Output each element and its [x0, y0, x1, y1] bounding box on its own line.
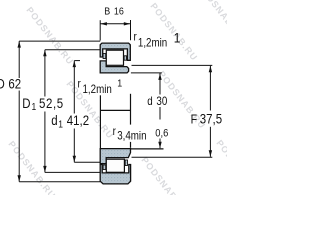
inner ring upper section — [100, 61, 128, 73]
svg-text:41,2: 41,2 — [67, 113, 89, 128]
D dimension — [18, 41, 20, 78]
svg-text:1: 1 — [32, 102, 37, 113]
svg-text:1: 1 — [174, 29, 181, 45]
d1 dimension — [73, 61, 75, 114]
svg-text:F: F — [191, 113, 197, 127]
cage bar lower right — [125, 160, 127, 166]
svg-text:16: 16 — [114, 6, 124, 18]
cage bar upper left — [103, 54, 106, 59]
svg-text:52,5: 52,5 — [39, 96, 64, 111]
svg-text:1,2min: 1,2min — [138, 37, 167, 50]
side face line left between sections — [99, 95, 101, 148]
svg-text:30: 30 — [156, 95, 167, 108]
svg-text:37,5: 37,5 — [200, 112, 222, 127]
outer ring lower section — [100, 165, 130, 184]
svg-text:62: 62 — [8, 77, 21, 92]
svg-text:d: d — [147, 95, 152, 108]
svg-text:d: d — [51, 113, 57, 128]
inner ring lower section — [100, 149, 130, 164]
svg-text:r: r — [134, 31, 138, 44]
axis line — [100, 109, 130, 111]
F dimension — [209, 66, 211, 111]
svg-text:r: r — [78, 78, 82, 91]
outer ring upper section — [100, 43, 130, 60]
watermark PODSNAB.RU tiles — [6, 0, 265, 217]
svg-text:D: D — [0, 77, 5, 92]
cage bar upper right — [124, 56, 126, 60]
roller upper section — [106, 50, 123, 65]
B dimension — [99, 20, 101, 40]
D1 dimension — [44, 50, 46, 97]
side face line right between sections — [130, 94, 132, 125]
d dimension — [159, 73, 161, 95]
svg-text:D: D — [22, 96, 30, 111]
svg-text:B: B — [104, 6, 110, 18]
cage bar lower left — [103, 165, 106, 170]
svg-text:1,2min: 1,2min — [83, 84, 112, 97]
svg-text:1: 1 — [58, 119, 63, 130]
svg-text:0,6: 0,6 — [155, 128, 168, 140]
roller lower section — [106, 159, 124, 172]
svg-text:3,4min: 3,4min — [117, 130, 146, 143]
svg-text:r: r — [113, 125, 117, 138]
svg-text:1: 1 — [117, 78, 122, 90]
